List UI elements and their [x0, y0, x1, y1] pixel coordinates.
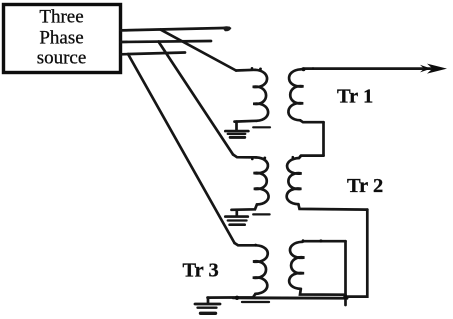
svg-text:Tr 3: Tr 3 — [183, 259, 219, 281]
svg-text:Three: Three — [39, 6, 83, 27]
svg-text:Phase: Phase — [39, 27, 83, 48]
svg-text:source: source — [37, 48, 87, 69]
svg-text:Tr 1: Tr 1 — [337, 85, 373, 107]
svg-text:Tr 2: Tr 2 — [347, 175, 383, 197]
